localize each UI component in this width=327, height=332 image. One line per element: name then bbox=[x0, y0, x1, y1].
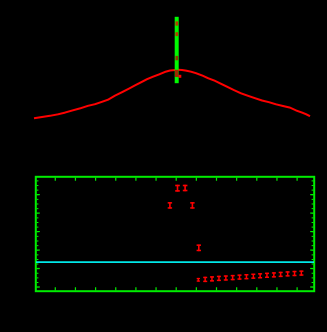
red data point row #5 (225.8,278.0) bbox=[224, 275, 228, 277]
y-axis major ticks bbox=[37, 195, 313, 287]
red data point row #15 (294.5,273.5) bbox=[293, 271, 297, 273]
red profile curve (top panel) bbox=[34, 70, 310, 118]
red data point row #10 (260.1,275.8) bbox=[258, 273, 262, 275]
red data point row #12 (273.9,274.9) bbox=[272, 272, 276, 274]
red data point row #2 (205.2,279.4) bbox=[203, 277, 207, 279]
red data point row #16 (301.4,273.1) bbox=[299, 270, 303, 272]
bottom panel green frame bbox=[36, 177, 314, 291]
x-axis major ticks (top and bottom edges) bbox=[55, 178, 297, 290]
y-axis minor ticks (left and right edges) bbox=[37, 181, 313, 287]
red data point row #13 (280.7,274.4) bbox=[279, 272, 283, 274]
red data point (198.8,247.8) bbox=[197, 244, 201, 246]
red data point row #1 (198.3,279.8) bbox=[197, 278, 200, 279]
red data point (169.9,205.4) bbox=[168, 202, 172, 204]
red data point (177.5,188.2) bbox=[175, 185, 180, 187]
green selection bar bbox=[175, 17, 179, 83]
red data point row #11 (267.0,275.3) bbox=[265, 273, 269, 275]
red data point row #7 (239.5,277.1) bbox=[238, 274, 242, 276]
red data point row #8 (246.4,276.7) bbox=[244, 274, 248, 276]
red data point row #4 (218.9,278.4) bbox=[217, 276, 221, 278]
red mark 3 in bar bbox=[175, 56, 178, 60]
red mark 4 in bar (curve crossing) bbox=[175, 70, 178, 77]
curve notch right of bar bbox=[179, 75, 182, 78]
red data point (192.4,205.4) bbox=[190, 202, 194, 204]
cyan threshold line bbox=[36, 261, 314, 263]
red mark 2 in bar bbox=[175, 32, 178, 36]
red data point row #6 (232.7,277.6) bbox=[231, 275, 235, 277]
red data point row #9 (253.3,276.2) bbox=[251, 274, 255, 276]
red data point row #14 (287.6,273.9) bbox=[286, 271, 290, 273]
red mark 1 in bar bbox=[175, 21, 178, 25]
red data point (185.1,188.0) bbox=[183, 185, 188, 187]
red data point row #3 (212.0,278.9) bbox=[210, 276, 214, 278]
